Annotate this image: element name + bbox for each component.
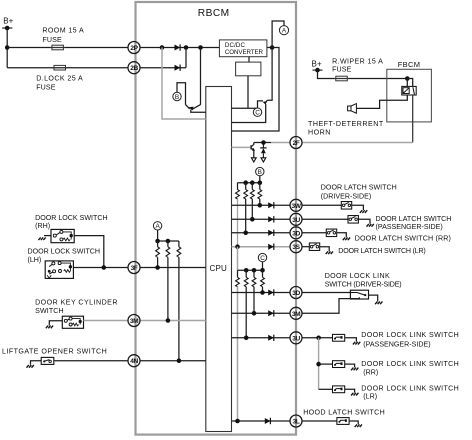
node bus A c1: [155, 239, 160, 244]
ground (passenger link): [353, 342, 360, 345]
fuse ROOM 15 A: [50, 45, 66, 50]
wire 3M to driver link switch (lower): [302, 299, 359, 314]
connector 3F: [128, 262, 140, 274]
transistor Q3 (2F driver): [251, 143, 255, 158]
connector 3U (link): [290, 332, 302, 344]
diode D5: [268, 230, 274, 236]
DC/DC converter box U1: [219, 40, 267, 57]
node RC4/3D: [260, 290, 265, 295]
wire gray 3S column down to 3L: [237, 247, 239, 271]
resistor RC4: [262, 270, 264, 277]
wire relay out to 2F: [412, 95, 414, 143]
wire to net label A (top): [272, 21, 284, 48]
svg-text:3U: 3U: [292, 335, 300, 342]
node 2P branch (x=162): [160, 45, 165, 50]
node RB1/3S: [235, 244, 240, 249]
svg-text:DOOR LOCK LINK SWITCH: DOOR LOCK LINK SWITCH: [361, 384, 459, 392]
wire RA2 to 3M wire: [167, 257, 169, 320]
transistor Q2 (C driver): [232, 100, 268, 122]
svg-text:(LR): (LR): [363, 393, 377, 401]
svg-text:LIFTGATE OPENER SWITCH: LIFTGATE OPENER SWITCH: [2, 347, 107, 355]
wire 3M to CPU (gray): [140, 320, 206, 322]
svg-text:DOOR LOCK SWITCH: DOOR LOCK SWITCH: [35, 214, 108, 222]
svg-text:3W: 3W: [292, 203, 302, 210]
wire RB3 to 3U wire: [251, 199, 253, 219]
horn speaker icon: [348, 104, 357, 114]
door latch switch passenger box: [348, 216, 358, 224]
svg-text:3S: 3S: [292, 244, 300, 251]
node bus C c3: [252, 268, 257, 273]
svg-text:FUSE: FUSE: [36, 83, 56, 91]
svg-text:FBCM: FBCM: [398, 60, 420, 69]
net label B (top area): [173, 92, 181, 101]
svg-text:B: B: [175, 94, 179, 101]
node RC3/3M: [252, 311, 257, 316]
ground (LR link): [351, 393, 358, 396]
wire to RR link switch: [319, 363, 333, 365]
wire 3D (lock link driver): [232, 292, 291, 294]
wire 3M (lock link driver 2): [232, 312, 291, 314]
node RC1/3L: [235, 419, 240, 424]
node relay feed: [405, 76, 410, 81]
zener diode Z1 to arrow: [260, 143, 266, 158]
node diode join: [184, 45, 189, 50]
diode D8: [268, 310, 274, 316]
wire C to bus: [262, 262, 264, 271]
connector 3D: [290, 227, 302, 239]
svg-text:3M: 3M: [292, 311, 301, 318]
battery terminal B+ (right): [313, 69, 323, 71]
resistor RB3: [251, 183, 253, 190]
node transistor B collector tap: [198, 45, 203, 50]
wire RR link to gnd: [345, 364, 355, 367]
svg-text:DOOR LOCK SWITCH: DOOR LOCK SWITCH: [28, 248, 101, 256]
svg-text:DOOR LOCK LINK SWITCH: DOOR LOCK LINK SWITCH: [361, 360, 459, 368]
wire 3F to CPU: [140, 267, 206, 269]
wire driver latch to gnd: [352, 205, 364, 210]
connector 2B: [128, 62, 140, 74]
node battery branch: [5, 45, 10, 50]
wire ROOM fuse feed: [7, 47, 128, 49]
wire 3S (latch LR) gray: [232, 246, 291, 248]
node bus A c2: [166, 239, 171, 244]
connector 3M (left): [128, 315, 140, 327]
ground (passenger latch): [367, 224, 374, 227]
node DC/DC output: [270, 45, 275, 50]
door lock switch RH box: [51, 229, 74, 242]
door key cylinder switch box: [62, 316, 83, 328]
wire RB1 to 3S wire: [237, 199, 239, 247]
wire 2P to DC/DC converter: [140, 47, 219, 49]
svg-text:2B: 2B: [130, 65, 138, 72]
bus A: [158, 240, 179, 242]
wire 3D (latch RR): [232, 232, 291, 234]
wire 4N to CPU: [140, 360, 206, 362]
ground (RR latch): [343, 238, 350, 241]
node RA1/3F: [155, 265, 160, 270]
wire hood latch to gnd: [349, 421, 358, 424]
node bus C c2: [244, 268, 249, 273]
node bus C c4: [260, 268, 265, 273]
wire key cyl gnd: [49, 321, 62, 326]
wire DC/DC right to node A/C: [267, 47, 272, 49]
door lock switch LH box: [45, 261, 73, 279]
wire passenger link to gnd: [345, 338, 357, 342]
bus B: [238, 182, 260, 184]
svg-text:SWITCH (DRIVER-SIDE): SWITCH (DRIVER-SIDE): [325, 280, 402, 288]
wire RB4 to 3W wire: [259, 199, 261, 205]
wire 3U (passenger latch): [232, 218, 291, 220]
svg-text:DOOR KEY CYLINDER: DOOR KEY CYLINDER: [35, 298, 118, 306]
wire Q3 base feed from CPU: [232, 146, 252, 148]
resistor RC3: [253, 270, 255, 277]
wire A to bus: [157, 230, 159, 241]
open arrow (zener): [261, 158, 266, 162]
node RB4/3W: [258, 203, 263, 208]
svg-text:DOOR LATCH SWITCH (LR): DOOR LATCH SWITCH (LR): [338, 247, 425, 255]
svg-text:DOOR LOCK LINK SWITCH: DOOR LOCK LINK SWITCH: [361, 331, 459, 339]
connector 3U: [290, 213, 302, 225]
svg-text:3F: 3F: [131, 265, 138, 272]
ground (RH switch): [38, 237, 45, 240]
wire 3U to passenger latch switch: [302, 218, 348, 220]
connector 3W: [290, 199, 302, 211]
fuse D.LOCK 25 A: [52, 65, 68, 70]
svg-text:(RH): (RH): [35, 222, 50, 230]
node RA2/3M: [166, 318, 171, 323]
svg-text:A: A: [282, 28, 287, 35]
connector 3M (link): [290, 307, 302, 319]
node bus B c4: [258, 180, 263, 185]
svg-text:3M: 3M: [130, 318, 139, 325]
resistor RC1: [237, 270, 239, 277]
node RB2/3D: [243, 231, 248, 236]
ground (hood latch): [355, 424, 362, 427]
ground (RR link): [351, 368, 358, 371]
diode D7: [268, 289, 274, 295]
wire key cyl to 3M (gray): [84, 320, 129, 322]
svg-text:2F: 2F: [293, 140, 300, 147]
svg-text:3U: 3U: [292, 217, 300, 224]
net label A (top right): [279, 26, 288, 35]
svg-text:3L: 3L: [293, 419, 300, 426]
wire gray branch x=162 down to CPU: [162, 48, 206, 120]
wire 3D to driver link switch: [302, 292, 351, 294]
wire to LR link switch: [319, 388, 333, 390]
wire link branch down: [318, 338, 320, 390]
open arrow (Q3 emitter): [251, 158, 256, 162]
wire C base feed: [258, 101, 264, 108]
wire LR latch to gnd: [320, 247, 330, 252]
wire horn to relay: [357, 95, 408, 108]
wire RC4 to 3D wire: [262, 287, 264, 293]
svg-text:4N: 4N: [130, 358, 138, 365]
fuse R.WIPER 15 A: [334, 76, 350, 81]
node RH/LH join: [102, 265, 107, 270]
ground (liftgate): [27, 365, 34, 368]
svg-text:B+: B+: [3, 17, 13, 26]
svg-text:C: C: [260, 255, 265, 262]
wire B base feed: [177, 83, 186, 105]
connector 3L: [290, 415, 302, 427]
svg-text:THEFT-DETERRENT: THEFT-DETERRENT: [308, 120, 384, 128]
svg-text:CPU: CPU: [210, 264, 228, 273]
node RC2/3U2: [244, 336, 249, 341]
net label C (bus): [258, 253, 266, 261]
resistor RB2: [245, 183, 247, 190]
node bus B c3: [250, 180, 255, 185]
ground (driver link): [375, 302, 382, 305]
svg-text:SWITCH: SWITCH: [35, 307, 64, 315]
wire collector feed Q1: [200, 48, 202, 105]
svg-text:D.LOCK 25 A: D.LOCK 25 A: [36, 74, 83, 82]
svg-text:(RR): (RR): [363, 368, 378, 376]
net label A (bus): [153, 222, 161, 231]
wire RB2 to 3D wire: [245, 199, 247, 233]
connector 3D (link): [290, 287, 302, 299]
svg-text:(PASSENGER-SIDE): (PASSENGER-SIDE): [363, 340, 430, 348]
svg-text:2P: 2P: [130, 45, 138, 52]
wire RR latch to gnd: [337, 233, 347, 238]
wire 3U2 (lock link): [232, 337, 291, 339]
connector 2F: [290, 137, 302, 149]
svg-text:DOOR LOCK LINK: DOOR LOCK LINK: [325, 272, 390, 280]
wire collector feed Q2: [267, 48, 272, 101]
wire liftgate gnd: [31, 361, 42, 365]
svg-text:ROOM 15 A: ROOM 15 A: [42, 27, 84, 35]
svg-text:DOOR LATCH SWITCH: DOOR LATCH SWITCH: [321, 184, 397, 192]
node RA3/4N: [177, 358, 182, 363]
DC/DC output box: [236, 62, 261, 76]
wire RC3 to 3M wire: [253, 287, 255, 314]
node zener branch on 2F wire: [261, 140, 266, 145]
wire RC2 to 3U wire: [245, 287, 247, 338]
node RB3/3U: [250, 217, 255, 222]
diode D10: [265, 418, 271, 424]
resistor RB1: [237, 183, 239, 190]
diode D6: [268, 244, 274, 250]
wire 3W to driver latch switch: [302, 204, 341, 206]
diode D2 (2B feed): [175, 65, 181, 71]
wire 3L (hood latch): [232, 420, 291, 422]
svg-text:(PASSENGER-SIDE): (PASSENGER-SIDE): [376, 223, 443, 231]
wire DC/DC power to CPU: [232, 48, 280, 132]
ground (key cylinder): [46, 326, 53, 329]
diode D9: [268, 335, 274, 341]
net label B (bus): [256, 167, 264, 175]
svg-text:FUSE: FUSE: [42, 36, 62, 44]
wire passenger latch to gnd: [358, 219, 370, 224]
CPU box: [206, 87, 232, 432]
diode D3: [268, 202, 274, 208]
wire 2F right to relay: [302, 142, 413, 144]
wire RH gnd to box: [44, 235, 51, 237]
wire 3L to hood latch switch: [302, 420, 337, 422]
svg-text:HOOD LATCH SWITCH: HOOD LATCH SWITCH: [303, 408, 385, 416]
wire B to bus: [259, 176, 261, 183]
svg-text:CONVERTER: CONVERTER: [225, 49, 264, 56]
wire liftgate to 4N: [54, 360, 128, 362]
wire B+ down feed: [6, 28, 8, 68]
wire CPU to net label C: [232, 107, 258, 109]
node bus B c2: [243, 180, 248, 185]
connector 4N: [128, 355, 140, 367]
door latch switch driver box: [341, 202, 351, 210]
net label C (top area): [253, 108, 261, 117]
wire 3U to link switches: [302, 337, 333, 339]
svg-text:(LH): (LH): [28, 256, 42, 264]
FBCM box: [387, 69, 432, 122]
wire 3W (driver latch): [232, 204, 291, 206]
wire driver link to gnd: [369, 295, 378, 301]
svg-text:3D: 3D: [292, 290, 300, 297]
wire relay switch feed: [407, 79, 412, 87]
svg-text:HORN: HORN: [308, 129, 331, 137]
wire RC1 (gray) to 3L wire: [237, 287, 239, 421]
svg-text:DOOR LATCH SWITCH: DOOR LATCH SWITCH: [376, 215, 452, 223]
wire LR link to gnd: [345, 389, 355, 392]
svg-text:RBCM: RBCM: [198, 8, 230, 19]
door lock link switch driver box: [350, 290, 368, 299]
svg-text:3D: 3D: [292, 230, 300, 237]
battery terminal B+ (left): [2, 27, 12, 29]
svg-text:A: A: [155, 223, 160, 230]
wire D.LOCK fuse feed: [7, 67, 128, 69]
ground (driver latch): [360, 210, 367, 213]
svg-text:R.WIPER 15 A: R.WIPER 15 A: [332, 57, 383, 65]
svg-text:B+: B+: [312, 60, 322, 69]
wire DC/DC to output box: [248, 57, 250, 62]
diode D4: [268, 216, 274, 222]
node link branch 1: [316, 336, 321, 341]
diode D1 (2P feed): [175, 44, 181, 50]
wire RH switch to 3F node: [74, 236, 104, 268]
wire B+ to FBCM: [318, 70, 407, 78]
wire RA1 to 3F wire: [157, 257, 159, 267]
wire output box to node: [247, 76, 249, 108]
svg-text:FUSE: FUSE: [332, 65, 352, 73]
resistor RA2: [167, 241, 169, 247]
wire 2F left: [254, 142, 271, 144]
relay K1 (theft-deterrent horn relay): [402, 86, 416, 95]
resistor RA3: [178, 241, 180, 247]
wire relay coil feed: [406, 79, 408, 87]
RBCM module box: [136, 2, 297, 435]
door lock link switch LR box: [333, 386, 345, 393]
ground (LR latch): [326, 251, 333, 254]
wire LH switch to 3F: [73, 267, 128, 269]
wire 3S to LR latch switch: [302, 246, 309, 248]
bus C: [238, 269, 263, 271]
door latch switch RR box: [326, 229, 336, 237]
connector 2P: [128, 42, 140, 54]
resistor RB4: [259, 183, 261, 190]
svg-text:(DRIVER-SIDE): (DRIVER-SIDE): [321, 193, 371, 201]
door lock link switch passenger box: [333, 334, 345, 341]
wire 3D to RR latch switch: [302, 232, 326, 234]
resistor RC2: [245, 270, 247, 277]
connector 3S: [290, 241, 302, 253]
svg-text:DOOR LATCH SWITCH (RR): DOOR LATCH SWITCH (RR): [355, 234, 451, 242]
hood latch switch box: [337, 418, 349, 425]
door lock link switch RR box: [333, 361, 345, 368]
svg-text:B: B: [258, 169, 262, 176]
resistor RA1: [157, 241, 159, 247]
svg-text:C: C: [255, 110, 260, 117]
transistor Q1 (B driver): [186, 105, 206, 113]
wire 2B diode branch: [140, 67, 186, 69]
door latch switch LR box: [309, 243, 319, 251]
wire RA3 to 4N wire: [178, 257, 180, 360]
liftgate opener switch box: [41, 357, 54, 364]
node link branch 2: [316, 362, 321, 367]
